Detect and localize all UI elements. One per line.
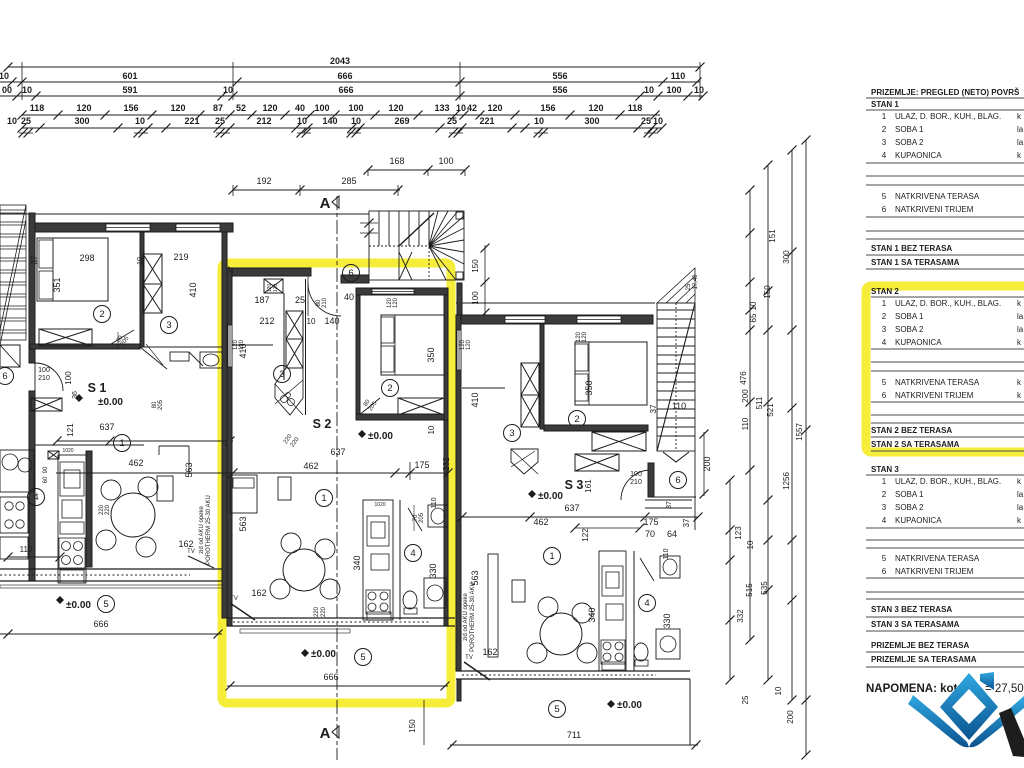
S3 dim line 462/175 <box>462 516 698 518</box>
svg-text:S 3: S 3 <box>565 478 584 492</box>
svg-text:A: A <box>320 725 331 742</box>
S2 bath door <box>408 508 422 531</box>
svg-text:S 1: S 1 <box>88 381 107 395</box>
S3 window left wall <box>457 330 461 370</box>
svg-text:la: la <box>1017 138 1024 147</box>
S2 left wall <box>227 268 232 626</box>
svg-text:la: la <box>1017 125 1024 134</box>
svg-text:212: 212 <box>256 116 271 126</box>
svg-text:KUPAONICA: KUPAONICA <box>895 338 942 347</box>
svg-text:TV: TV <box>187 549 195 555</box>
S2 terrace <box>301 649 309 657</box>
S3 left wall <box>456 315 461 671</box>
dim line row E <box>22 127 662 129</box>
S3 toilet <box>634 643 648 661</box>
room number 2 bubble <box>382 380 399 397</box>
svg-text:STAN 2: STAN 2 <box>871 287 899 296</box>
svg-text:±0.00: ±0.00 <box>98 397 123 408</box>
S3 window top wall <box>577 316 621 323</box>
svg-text:zid od AKU opeke: zid od AKU opeke <box>463 592 469 640</box>
svg-text:5: 5 <box>103 599 108 610</box>
svg-text:563: 563 <box>184 462 194 477</box>
svg-text:±0.00: ±0.00 <box>617 700 642 711</box>
S1 bedroom/bath partition wall <box>140 232 144 347</box>
stairwell left edge (hatched) <box>0 205 26 345</box>
S2 right wall lower <box>444 420 448 626</box>
S2 bed <box>381 315 444 375</box>
svg-text:221: 221 <box>184 116 199 126</box>
room number 5 bubble <box>355 649 372 666</box>
svg-text:NATKRIVENI TRIJEM: NATKRIVENI TRIJEM <box>895 567 974 576</box>
S3 washbasin <box>660 556 680 578</box>
svg-text:120: 120 <box>393 297 399 308</box>
svg-text:591: 591 <box>122 85 137 95</box>
svg-text:120: 120 <box>388 103 403 113</box>
svg-text:300: 300 <box>782 250 791 264</box>
room number 2 bubble <box>569 411 586 428</box>
svg-text:120: 120 <box>273 284 279 293</box>
room number 3 bubble <box>161 317 178 334</box>
S1 bath door + shelf <box>140 347 167 369</box>
S2 wardrobe under bed <box>398 398 444 415</box>
svg-text:5: 5 <box>554 704 559 715</box>
svg-text:PRIZEMLJE SA TERASAMA: PRIZEMLJE SA TERASAMA <box>871 655 977 664</box>
S2 kitchen strip <box>363 500 393 620</box>
svg-text:4: 4 <box>410 548 415 559</box>
svg-text:120: 120 <box>582 331 588 342</box>
svg-text:210: 210 <box>322 297 328 308</box>
S3 roof overhang line <box>456 302 655 304</box>
svg-text:666: 666 <box>338 85 353 95</box>
svg-text:300: 300 <box>584 116 599 126</box>
svg-text:1256: 1256 <box>782 472 791 490</box>
svg-text:10: 10 <box>653 116 663 126</box>
svg-text:192: 192 <box>256 176 271 186</box>
room number 1 bubble <box>316 490 333 507</box>
svg-text:120: 120 <box>466 339 472 350</box>
svg-text:151: 151 <box>768 229 777 243</box>
room number 6 bubble <box>0 368 14 385</box>
svg-text:156: 156 <box>123 103 138 113</box>
svg-text:410: 410 <box>188 282 198 297</box>
svg-text:110: 110 <box>672 401 686 411</box>
svg-text:70: 70 <box>645 529 655 539</box>
S3 bed <box>575 342 647 405</box>
svg-text:10: 10 <box>746 540 755 549</box>
svg-text:210: 210 <box>630 479 642 486</box>
svg-text:269: 269 <box>394 116 409 126</box>
S3 kitchen strip <box>599 551 626 671</box>
svg-text:5: 5 <box>882 378 887 387</box>
svg-text:10: 10 <box>427 425 436 434</box>
S1 room2 door swing <box>111 330 134 344</box>
room number 4 bubble <box>28 489 45 506</box>
svg-text:SOBA 1: SOBA 1 <box>895 312 924 321</box>
svg-text:1020: 1020 <box>374 502 385 508</box>
svg-text:NATKRIVENA TERASA: NATKRIVENA TERASA <box>895 378 980 387</box>
S2 entry door arc <box>308 283 341 316</box>
svg-text:220: 220 <box>314 606 320 617</box>
svg-text:161: 161 <box>584 479 593 493</box>
dim line row C <box>0 95 703 97</box>
svg-text:410: 410 <box>470 392 480 407</box>
svg-text:120: 120 <box>170 103 185 113</box>
svg-text:168: 168 <box>389 156 404 166</box>
svg-text:476: 476 <box>739 371 748 385</box>
svg-text:2: 2 <box>882 312 887 321</box>
room number 3 bubble <box>274 366 291 383</box>
svg-text:10: 10 <box>137 257 144 265</box>
stair top fan <box>657 268 695 303</box>
svg-text:10: 10 <box>534 116 544 126</box>
svg-text:10: 10 <box>644 85 654 95</box>
svg-text:100: 100 <box>38 367 50 374</box>
svg-text:STAN 1 SA TERASAMA: STAN 1 SA TERASAMA <box>871 258 960 267</box>
svg-text:556: 556 <box>552 71 567 81</box>
S3 wardrobe column <box>521 363 539 395</box>
dim row 192 285 <box>233 189 400 191</box>
S1 bedroom bottom wall <box>30 344 140 349</box>
svg-text:666: 666 <box>323 672 338 682</box>
svg-text:4: 4 <box>882 338 887 347</box>
svg-text:2: 2 <box>882 125 887 134</box>
svg-text:1: 1 <box>549 551 554 562</box>
svg-text:POROTHERM 25-30 AKU: POROTHERM 25-30 AKU <box>470 582 476 652</box>
S3 wardrobe under bed <box>592 432 646 451</box>
svg-text:25: 25 <box>215 116 225 126</box>
svg-text:STAN 2 SA TERASAMA: STAN 2 SA TERASAMA <box>871 440 960 449</box>
svg-text:4: 4 <box>33 492 38 503</box>
S1 exterior top wall <box>30 223 233 232</box>
svg-text:10: 10 <box>694 85 704 95</box>
dim row 168 100 <box>368 169 465 171</box>
svg-text:175: 175 <box>414 460 429 470</box>
svg-text:±0.00: ±0.00 <box>66 600 91 611</box>
room number 5 bubble <box>549 701 566 718</box>
straight staircase right <box>657 303 695 462</box>
svg-text:STAN 1 BEZ TERASA: STAN 1 BEZ TERASA <box>871 244 952 253</box>
svg-text:NATKRIVENI TRIJEM: NATKRIVENI TRIJEM <box>895 205 974 214</box>
svg-text:STAN 1: STAN 1 <box>871 100 899 109</box>
room number 5 bubble <box>98 596 115 613</box>
room number 2 bubble <box>94 306 111 323</box>
dim 150 100 right of stair <box>484 245 486 315</box>
svg-text:4: 4 <box>882 516 887 525</box>
svg-text:205: 205 <box>158 399 164 410</box>
svg-text:110: 110 <box>741 417 750 430</box>
S2 bedroom window <box>372 289 414 294</box>
svg-text:10: 10 <box>0 71 9 81</box>
svg-text:100: 100 <box>666 85 681 95</box>
S1 corridor wall <box>144 346 222 348</box>
svg-text:330: 330 <box>662 613 672 628</box>
svg-text:la: la <box>1017 325 1024 334</box>
svg-text:110: 110 <box>431 497 438 508</box>
svg-text:64: 64 <box>667 529 677 539</box>
svg-text:STAN 3: STAN 3 <box>871 465 899 474</box>
svg-text:118: 118 <box>628 103 643 113</box>
svg-text:SOBA 1: SOBA 1 <box>895 490 924 499</box>
svg-text:NATKRIVENA TERASA: NATKRIVENA TERASA <box>895 554 980 563</box>
svg-text:37: 37 <box>30 255 39 264</box>
svg-text:120: 120 <box>262 103 277 113</box>
svg-text:la: la <box>1017 490 1024 499</box>
S1 dining table <box>111 493 155 537</box>
svg-text:212: 212 <box>259 316 274 326</box>
svg-text:10: 10 <box>307 317 316 326</box>
svg-text:TV: TV <box>465 655 473 661</box>
svg-text:37: 37 <box>228 266 235 274</box>
svg-text:205: 205 <box>419 512 425 523</box>
svg-text:10: 10 <box>135 116 145 126</box>
svg-text:42: 42 <box>467 103 477 113</box>
svg-text:162: 162 <box>482 647 497 657</box>
svg-text:10: 10 <box>297 116 307 126</box>
svg-text:162: 162 <box>178 539 193 549</box>
svg-text:1020: 1020 <box>62 448 73 454</box>
svg-text:6: 6 <box>882 567 887 576</box>
svg-text:NATKRIVENI TRIJEM: NATKRIVENI TRIJEM <box>895 391 974 400</box>
S3 TV corner <box>464 662 490 680</box>
svg-text:zid od AKU opeke: zid od AKU opeke <box>199 505 205 553</box>
svg-text:210: 210 <box>38 375 50 382</box>
svg-text:200: 200 <box>702 456 712 471</box>
S1 roof overhang line <box>0 213 369 215</box>
room number 6 bubble <box>670 472 687 489</box>
S2 toilet <box>403 591 417 609</box>
S1 bath fixtures right <box>200 352 222 368</box>
S2 top wall <box>227 268 311 276</box>
S2 bottom wall <box>227 617 455 619</box>
svg-text:25: 25 <box>447 116 457 126</box>
svg-text:A: A <box>320 195 331 212</box>
svg-text:110: 110 <box>671 71 686 81</box>
svg-text:±0.00: ±0.00 <box>538 491 563 502</box>
svg-text:1: 1 <box>119 438 124 449</box>
S1 TV corner <box>188 556 214 568</box>
svg-text:220: 220 <box>321 606 327 617</box>
svg-text:25: 25 <box>641 116 651 126</box>
svg-text:121: 121 <box>66 423 75 437</box>
svg-text:100: 100 <box>348 103 363 113</box>
svg-text:2: 2 <box>99 309 104 320</box>
S2 washbasin <box>428 505 448 527</box>
svg-text:2043: 2043 <box>330 56 350 66</box>
svg-text:285: 285 <box>341 176 356 186</box>
svg-text:KUPAONICA: KUPAONICA <box>895 516 942 525</box>
svg-text:118: 118 <box>30 103 45 113</box>
svg-text:±0.00: ±0.00 <box>368 431 393 442</box>
room number 6 bubble <box>343 265 360 282</box>
S2 TV corner <box>230 603 255 620</box>
svg-text:25: 25 <box>295 295 305 305</box>
svg-text:PRIZEMLJE: PREGLED (NETO) POVR: PRIZEMLJE: PREGLED (NETO) POVRŠ <box>871 88 1020 97</box>
svg-text:00: 00 <box>2 85 12 95</box>
svg-text:120: 120 <box>588 103 603 113</box>
svg-text:162: 162 <box>251 588 266 598</box>
svg-text:6: 6 <box>2 371 7 382</box>
svg-text:150: 150 <box>408 719 417 733</box>
svg-text:6: 6 <box>675 475 680 486</box>
svg-text:10: 10 <box>774 686 783 695</box>
svg-text:556: 556 <box>552 85 567 95</box>
svg-text:1: 1 <box>321 493 326 504</box>
S3 wall stub above <box>457 283 462 315</box>
svg-text:410: 410 <box>238 343 248 358</box>
S2 window left wall <box>228 325 232 367</box>
svg-text:2: 2 <box>387 383 392 394</box>
svg-text:187: 187 <box>254 295 269 305</box>
svg-text:ULAZ, D. BOR., KUH., BLAG.: ULAZ, D. BOR., KUH., BLAG. <box>895 299 1001 308</box>
S1 window top-right <box>176 224 220 231</box>
S2 room2 door swing <box>358 398 380 416</box>
svg-text:110: 110 <box>663 548 670 559</box>
room number 1 bubble <box>114 435 131 452</box>
svg-text:17,40: 17,40 <box>693 274 699 290</box>
svg-text:601: 601 <box>122 71 137 81</box>
spiral staircase top <box>369 211 464 280</box>
svg-text:37: 37 <box>649 404 658 413</box>
svg-text:1: 1 <box>882 477 887 486</box>
svg-text:SOBA 2: SOBA 2 <box>895 325 924 334</box>
svg-text:140: 140 <box>322 116 337 126</box>
svg-text:300: 300 <box>74 116 89 126</box>
room number 4 bubble <box>639 595 656 612</box>
svg-text:200: 200 <box>741 389 750 403</box>
svg-text:TV: TV <box>230 596 238 602</box>
svg-text:KUPAONICA: KUPAONICA <box>895 151 942 160</box>
S1 terrace <box>56 596 64 604</box>
S1 wardrobe bottom-left <box>39 329 92 346</box>
svg-text:2: 2 <box>882 490 887 499</box>
svg-text:340: 340 <box>352 555 362 570</box>
svg-text:140: 140 <box>324 316 339 326</box>
svg-text:120: 120 <box>76 103 91 113</box>
svg-text:6: 6 <box>882 391 887 400</box>
dim line row B <box>0 81 700 83</box>
svg-text:NAPOMENA: kota: NAPOMENA: kota <box>866 683 964 695</box>
S2 bath partition lines <box>283 293 285 380</box>
S3 washing machine <box>656 629 680 659</box>
svg-text:STAN 2 BEZ TERASA: STAN 2 BEZ TERASA <box>871 426 952 435</box>
svg-text:90: 90 <box>43 466 49 473</box>
svg-text:POROTHERM 25-30 AKU: POROTHERM 25-30 AKU <box>206 495 212 565</box>
S3 terrace left stub <box>457 679 461 701</box>
svg-text:1: 1 <box>882 112 887 121</box>
trijem S3 walls <box>648 463 654 497</box>
svg-text:122: 122 <box>581 528 590 542</box>
area table right <box>866 88 1024 667</box>
svg-text:100: 100 <box>630 471 642 478</box>
S1 left wall <box>29 213 35 363</box>
svg-text:511: 511 <box>755 396 764 409</box>
svg-text:350: 350 <box>426 347 436 362</box>
svg-text:133: 133 <box>434 103 449 113</box>
S3 rooms bottom wall <box>544 425 648 431</box>
svg-text:298: 298 <box>79 253 94 263</box>
room number 4 bubble <box>405 545 422 562</box>
dim line row D <box>22 114 660 116</box>
S1 window top-left <box>106 224 150 231</box>
svg-text:175: 175 <box>643 517 658 527</box>
S1 wardrobe at corridor <box>31 398 62 411</box>
svg-text:ULAZ, D. BOR., KUH., BLAG.: ULAZ, D. BOR., KUH., BLAG. <box>895 477 1001 486</box>
svg-text:3: 3 <box>279 369 284 380</box>
S1 kitchen counter strip <box>58 455 86 583</box>
svg-text:ULAZ, D. BOR., KUH., BLAG.: ULAZ, D. BOR., KUH., BLAG. <box>895 112 1001 121</box>
S2 washing machine <box>424 578 446 608</box>
svg-text:5: 5 <box>360 652 365 663</box>
svg-text:52: 52 <box>236 103 246 113</box>
S1 bottom wall <box>0 568 222 570</box>
top dimension block <box>0 56 708 138</box>
svg-text:563: 563 <box>238 516 248 531</box>
svg-text:3: 3 <box>509 428 514 439</box>
svg-text:535: 535 <box>760 581 769 595</box>
svg-text:3: 3 <box>882 138 887 147</box>
S2 wardrobe column <box>286 311 303 339</box>
S2 dim line 462/175 <box>56 472 448 474</box>
svg-text:462: 462 <box>128 458 143 468</box>
svg-text:NATKRIVENA TERASA: NATKRIVENA TERASA <box>895 192 980 201</box>
svg-text:10: 10 <box>7 116 17 126</box>
svg-text:25: 25 <box>741 695 750 704</box>
yellow highlight box around STAN 2 table block <box>866 286 1024 452</box>
svg-text:100: 100 <box>438 156 453 166</box>
S3 wardrobe horizontal <box>575 454 619 471</box>
S1 left appliances <box>0 450 34 492</box>
svg-text:350: 350 <box>584 380 594 395</box>
svg-text:4: 4 <box>644 598 649 609</box>
svg-text:462: 462 <box>533 517 548 527</box>
svg-text:1: 1 <box>882 299 887 308</box>
svg-text:666: 666 <box>93 619 108 629</box>
S3 window top wall 2 <box>505 316 545 323</box>
svg-text:221: 221 <box>479 116 494 126</box>
svg-text:637: 637 <box>564 503 579 513</box>
svg-text:637: 637 <box>330 447 345 457</box>
S1 wall niche <box>158 446 160 455</box>
svg-text:2: 2 <box>574 414 579 425</box>
right vertical dim chains <box>730 140 806 755</box>
svg-text:SOBA 2: SOBA 2 <box>895 138 924 147</box>
svg-text:87: 87 <box>213 103 223 113</box>
svg-text:65: 65 <box>749 313 758 322</box>
S2 closet top-left <box>264 279 283 293</box>
svg-text:330: 330 <box>428 563 438 578</box>
S3 hall door arc <box>621 470 651 500</box>
S2 bedroom walls <box>356 288 448 295</box>
svg-text:351: 351 <box>52 277 62 292</box>
svg-text:332: 332 <box>736 609 745 623</box>
room number 1 bubble <box>544 548 561 565</box>
svg-text:711: 711 <box>567 730 581 740</box>
dim line 2043 <box>8 66 700 68</box>
S2 dining table <box>283 549 325 591</box>
svg-text:110: 110 <box>20 545 33 554</box>
svg-text:100: 100 <box>314 103 329 113</box>
svg-text:3: 3 <box>166 320 171 331</box>
closet below left stair <box>0 345 20 367</box>
svg-text:37: 37 <box>682 518 691 527</box>
svg-text:10: 10 <box>22 85 32 95</box>
svg-text:120: 120 <box>487 103 502 113</box>
S1 tall wardrobe column <box>143 254 162 284</box>
svg-text:60: 60 <box>43 476 49 483</box>
svg-text:5: 5 <box>882 554 887 563</box>
section line A-A (dashed) <box>336 196 338 760</box>
svg-text:40: 40 <box>295 103 305 113</box>
